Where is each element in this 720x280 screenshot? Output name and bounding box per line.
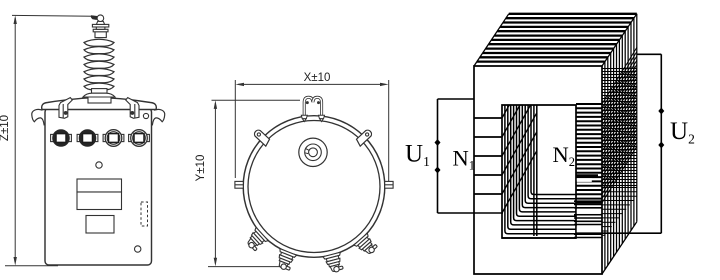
dashed side slot	[141, 202, 148, 226]
winding turns on stack right face	[602, 69, 637, 236]
Z dimension line Z±10	[5, 15, 94, 265]
tank lid	[42, 98, 157, 110]
LV bushing 1	[51, 130, 72, 147]
LV bushing 3	[103, 130, 124, 147]
nameplate	[77, 179, 122, 210]
upper-right tab	[355, 129, 373, 147]
winding lead thick turn	[576, 174, 598, 177]
U2 wires	[576, 54, 661, 233]
LV bushing 4	[129, 130, 150, 147]
lamination right side edges	[605, 14, 637, 270]
svg-text:Y±10: Y±10	[195, 155, 207, 182]
Y dimension line Y±10	[208, 100, 300, 266]
lifting handle	[304, 97, 321, 115]
svg-text:Z±10: Z±10	[0, 115, 11, 141]
right lid clamp	[126, 98, 139, 119]
right lifting hook	[152, 109, 164, 125]
svg-text:X±10: X±10	[304, 72, 331, 84]
bottom bushing 4	[354, 233, 379, 258]
upper-left tab	[253, 129, 271, 147]
svg-text:N1: N1	[453, 146, 476, 173]
lid mounting riser	[88, 97, 111, 104]
lower plate	[86, 216, 114, 234]
svg-text:U2: U2	[670, 118, 695, 147]
svg-text:N2: N2	[553, 142, 576, 169]
bottom bushing 3	[323, 252, 345, 274]
bottom bushing 1	[243, 227, 269, 252]
tank top view inner rim	[248, 121, 380, 253]
HV bushing shed stack	[84, 39, 114, 90]
terminal clip	[91, 15, 98, 20]
iron core lamination top edges	[477, 14, 637, 62]
HV bushing top view	[299, 138, 327, 166]
X dimension line X±10	[235, 80, 388, 183]
core front face	[474, 66, 602, 274]
small hole on lid right	[143, 113, 148, 118]
left side lug	[235, 181, 243, 188]
bushing lower flare and base	[83, 89, 115, 97]
left lid clamp	[59, 98, 72, 119]
winding lead notches	[577, 178, 601, 233]
svg-text:U1: U1	[405, 141, 430, 170]
secondary winding N2 turns	[576, 48, 637, 203]
window lamination left edges	[505, 105, 576, 236]
U1 terminal dots	[435, 139, 441, 174]
lamination stack left slant edge	[474, 14, 509, 66]
tank top view outer rim	[243, 116, 385, 258]
lamination stack right slant edge	[602, 14, 637, 66]
handle feet	[301, 115, 324, 121]
U1 wires	[438, 99, 504, 213]
U2 terminal dots	[658, 108, 664, 149]
LV bushing 2	[77, 130, 98, 147]
bottom bushing 2	[273, 249, 296, 272]
small circle upper center of body	[96, 162, 102, 168]
primary winding N1 turns	[474, 105, 537, 213]
left lifting hook	[32, 109, 44, 125]
bushing top cap and terminal	[92, 15, 108, 38]
transformer tank body	[45, 108, 152, 265]
lamination bottom-right staircase	[602, 222, 637, 274]
front window bottom edge extension	[502, 237, 576, 239]
right side lug	[385, 181, 393, 188]
drain valve circle	[135, 246, 141, 252]
bottom yoke lamination stripes under right leg	[574, 201, 602, 237]
